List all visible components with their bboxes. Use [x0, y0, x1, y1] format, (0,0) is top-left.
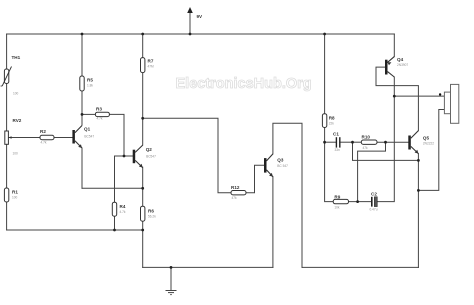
svg-text:4.7k: 4.7k [120, 210, 126, 214]
svg-text:47k: 47k [363, 146, 369, 150]
svg-text:Q1: Q1 [84, 127, 91, 132]
node top rail R5 [81, 33, 84, 36]
wire R4 bottom [114, 216, 116, 230]
wire rail drop to ground rail [142, 230, 144, 267]
svg-text:Q3: Q3 [277, 158, 284, 163]
wire Q5 emitter column [417, 154, 419, 268]
resistor R1 [4, 188, 18, 202]
wire TH1 to RV2 [6, 84, 8, 132]
node ground stem [170, 266, 173, 269]
svg-text:BC547: BC547 [146, 155, 156, 159]
wire segment Q R10 right to R9 C2 node [358, 142, 386, 201]
wire R6 bottom [142, 221, 144, 230]
svg-text:4.7k: 4.7k [41, 141, 47, 145]
capacitor C1 [333, 132, 340, 153]
resistor R8 [322, 114, 335, 128]
node top rail R7 [141, 33, 144, 36]
wire R10 left lead [353, 141, 362, 143]
svg-text:47k: 47k [232, 196, 238, 200]
ground [166, 267, 177, 294]
wire R7 bottom to Q2 collector [142, 73, 144, 145]
wire branch to R12 [143, 118, 231, 192]
svg-text:ElectronicsHub.Org: ElectronicsHub.Org [176, 76, 312, 92]
wire top rail [7, 33, 395, 35]
svg-text:R8: R8 [329, 116, 335, 121]
wire R12 to Q3 base [246, 165, 264, 192]
svg-text:BC 547: BC 547 [277, 164, 288, 168]
resistor R6 [141, 206, 157, 221]
svg-text:R12: R12 [231, 185, 240, 190]
svg-text:R10: R10 [362, 134, 371, 139]
wire R2 to Q1 base [54, 137, 72, 139]
svg-text:BC547: BC547 [84, 135, 94, 139]
svg-text:2N3907: 2N3907 [397, 63, 408, 67]
svg-text:R4: R4 [120, 204, 126, 209]
wire speaker top pin [394, 95, 444, 97]
svg-text:0.47u: 0.47u [370, 208, 378, 212]
svg-text:R2: R2 [40, 129, 46, 134]
wire ground rail left [143, 266, 273, 268]
svg-text:R6: R6 [148, 209, 154, 214]
node C1 R10 [351, 141, 354, 144]
wire Q3 collector up [273, 123, 302, 267]
wire Q2 emitter down [142, 167, 144, 206]
node R3 Q2 base [123, 155, 126, 158]
transistor Q4 2N3907 PNP [385, 57, 408, 77]
wire C1 right lead [340, 141, 353, 143]
wire Q1 emitter link [82, 187, 143, 189]
wire RV2 to R1 [6, 144, 8, 188]
svg-text:9V: 9V [197, 14, 204, 19]
wire R8 top [324, 34, 326, 114]
wire R3 right drop [110, 114, 125, 156]
wire left column [6, 34, 8, 69]
transistor Q2 BC547 [133, 145, 156, 168]
svg-text:C1: C1 [333, 132, 339, 137]
capacitor C2 polarized [370, 191, 378, 211]
resistor R5 [80, 76, 94, 91]
resistor R7 [141, 58, 155, 73]
wire speaker bottom pin [418, 110, 444, 191]
svg-text:R3: R3 [96, 107, 102, 112]
resistor R12 [231, 185, 246, 200]
transistor Q3 BC547 [264, 154, 288, 177]
wire R10 right lead to Q5 base [377, 141, 408, 143]
wire Q3 emitter down [272, 177, 274, 268]
wire Q4 base loop [376, 67, 418, 131]
svg-text:Q4: Q4 [397, 57, 404, 62]
wire bottom left rail [7, 229, 143, 231]
svg-text:R1: R1 [12, 190, 18, 195]
svg-text:2N2222: 2N2222 [423, 142, 434, 146]
transistor Q1 BC547 [72, 126, 94, 149]
node Q4 collector speaker [393, 95, 396, 98]
node polarity dot speaker [439, 93, 441, 95]
node Q5 emitter segment P [417, 159, 420, 162]
svg-text:Q2: Q2 [146, 147, 153, 152]
svg-text:R5: R5 [87, 78, 93, 83]
wire node to Q1 collector [81, 114, 83, 125]
svg-text:C2: C2 [371, 191, 377, 196]
svg-text:100: 100 [12, 196, 18, 200]
wire C2 right to Q4 collector column [376, 77, 395, 202]
resistor R4 [112, 202, 126, 216]
svg-text:TH1: TH1 [12, 55, 21, 60]
svg-text:47M: 47M [148, 65, 155, 69]
power 9V arrow [187, 7, 203, 19]
svg-text:R9: R9 [334, 195, 340, 200]
wire R5 top [81, 34, 83, 76]
node Q5 emitter speaker return [417, 189, 420, 192]
svg-text:10k: 10k [334, 206, 340, 210]
resistor R3 [95, 107, 109, 121]
node Q1 Q2 emitter [141, 187, 144, 190]
node rail R4 [113, 229, 116, 232]
wire R9 right to C2 [349, 201, 372, 203]
svg-text:22k: 22k [329, 122, 335, 126]
node top rail 9V [189, 33, 192, 36]
wire RV2 wiper to R2 [9, 137, 40, 139]
node R7 branch [141, 117, 144, 120]
wire R4 column [114, 156, 116, 202]
svg-text:100: 100 [13, 152, 19, 156]
wire segment P C1 node to Q5 emitter [353, 142, 419, 160]
wire Q2 base row [115, 155, 133, 157]
speaker LS1 [444, 84, 458, 123]
node R5 R3 junction [81, 113, 84, 116]
wire R7 top [142, 34, 144, 58]
svg-text:Q5: Q5 [423, 136, 430, 141]
svg-text:56.2k: 56.2k [148, 215, 156, 219]
resistor R10 [361, 134, 377, 150]
node R9 C2 [356, 200, 359, 203]
svg-text:100: 100 [13, 92, 19, 96]
wire C1 node to R9 [325, 142, 334, 201]
node R10 Q5 base [384, 141, 387, 144]
wire R8 bottom to C1 node [324, 128, 326, 143]
wire R5 bottom to node [81, 91, 83, 114]
svg-text:1.8k: 1.8k [87, 84, 93, 88]
wire node to R3 [82, 113, 95, 115]
node top rail R8 [323, 33, 326, 36]
svg-text:33n: 33n [335, 148, 341, 152]
wire R1 to bottom rail [6, 202, 8, 230]
wire Q1 emitter down [81, 148, 83, 188]
resistor R2 [40, 129, 54, 145]
node rail R6 [141, 229, 144, 232]
wire ground rail right [302, 266, 418, 268]
node R8 C1 R9 [323, 141, 326, 144]
resistor R9 [333, 195, 348, 210]
thermistor TH1 [1, 55, 21, 96]
svg-text:R7: R7 [148, 59, 154, 64]
transistor Q5 2N2222 [408, 131, 434, 154]
svg-text:RV2: RV2 [13, 118, 22, 123]
svg-text:4.7k: 4.7k [97, 117, 103, 121]
wire 9V stem [189, 13, 191, 35]
wire C1 left lead [325, 141, 337, 143]
potentiometer RV2 [5, 118, 22, 156]
wire top rail drop to Q4 emitter [393, 34, 395, 57]
